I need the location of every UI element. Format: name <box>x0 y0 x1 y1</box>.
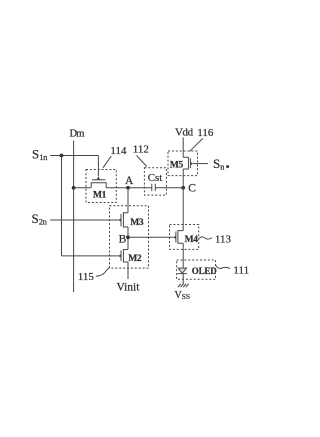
dashed box 113 around M4 <box>170 225 199 250</box>
label 111 with squiggle leader <box>216 264 249 276</box>
wire M5 drain to node C <box>182 169 184 188</box>
dashed box 112 around Cst <box>144 168 166 195</box>
svg-text:114: 114 <box>110 145 127 157</box>
junction dot S1n <box>60 154 64 158</box>
wire S1n horizontal <box>50 155 98 157</box>
wire Dm vertical data line <box>73 141 75 293</box>
capacitor Cst <box>152 184 156 191</box>
wire Vdd vertical <box>182 138 184 158</box>
svg-text:OLED: OLED <box>192 266 217 276</box>
transistor M3 <box>118 213 128 227</box>
label 112 with leader <box>133 144 149 167</box>
label 116 with leader <box>190 127 214 151</box>
wire M3 to node B to M2 <box>127 227 129 250</box>
wire M2 drain down to Vinit <box>127 262 129 279</box>
label 114 with leader <box>103 145 127 168</box>
svg-text:112: 112 <box>133 144 149 156</box>
svg-text:Cst: Cst <box>148 172 163 184</box>
svg-text:M1: M1 <box>93 191 107 201</box>
node B <box>126 235 130 239</box>
svg-text:116: 116 <box>197 127 214 139</box>
wire main horizontal left (Dm to M1 source) <box>74 187 92 189</box>
transistor M5 <box>183 157 208 169</box>
svg-text:M3: M3 <box>130 218 144 228</box>
ground hatch Vss <box>178 284 189 287</box>
svg-text:A: A <box>125 175 134 187</box>
svg-text:Dm: Dm <box>70 129 85 140</box>
svg-text:M2: M2 <box>128 254 142 264</box>
svg-text:B: B <box>119 233 127 245</box>
wire M2 gate lead from S1n <box>62 255 119 257</box>
label 113 with squiggle leader <box>199 234 231 246</box>
dashed box 115 around M3 M2 <box>110 206 149 268</box>
dashed box 114 around M1 <box>86 170 116 203</box>
junction dot Dm/main-wire <box>72 186 76 190</box>
svg-text:111: 111 <box>233 264 249 276</box>
svg-text:M4: M4 <box>185 235 199 245</box>
label 115 with leader <box>78 268 110 283</box>
svg-text:115: 115 <box>78 271 95 283</box>
wire OLED to Vss ground <box>182 279 184 284</box>
wire main horizontal (M1 drain to node A to Cst) <box>106 187 151 189</box>
node A <box>126 186 130 190</box>
svg-text:VSS: VSS <box>175 290 191 301</box>
svg-text:113: 113 <box>215 234 232 246</box>
svg-text:M5: M5 <box>170 160 184 170</box>
svg-text:C: C <box>188 182 196 194</box>
wire node A down to M3 <box>127 188 129 213</box>
wire node B to M4 gate <box>128 236 173 238</box>
svg-text:Vdd: Vdd <box>175 126 194 138</box>
svg-text:Sn: Sn <box>213 156 225 171</box>
wire node C down to M4 <box>182 188 184 231</box>
wire main horizontal (Cst to node C) <box>156 187 184 189</box>
dashed box 111 around OLED <box>177 260 216 279</box>
wire S1n vertical <box>61 156 63 256</box>
node C <box>181 186 185 190</box>
svg-text:S1n: S1n <box>32 147 48 162</box>
svg-text:Vinit: Vinit <box>117 282 141 294</box>
svg-text:S2n: S2n <box>32 211 48 226</box>
dashed box 116 around M5 <box>168 151 198 176</box>
wire M4 drain down to OLED <box>182 243 184 268</box>
diode OLED <box>178 268 187 279</box>
transistor M2 <box>118 250 128 263</box>
transistor M4 <box>173 231 183 244</box>
wire S2n horizontal to M3 gate <box>50 219 118 221</box>
transistor M1 <box>91 156 106 188</box>
